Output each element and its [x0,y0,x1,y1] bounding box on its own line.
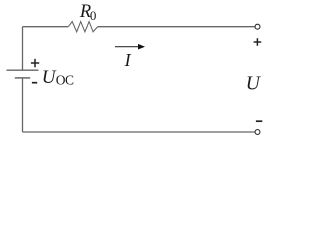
battery Uoc short plate [15,77,30,79]
terminal bottom right [255,130,260,135]
battery Uoc long plate [7,69,39,71]
plus battery [31,59,39,68]
svg-text:U: U [246,74,262,95]
svg-text:0: 0 [90,8,97,23]
plus right [254,38,262,46]
minus right [256,120,262,122]
wire left lower [22,78,24,132]
wire top right [98,26,255,28]
svg-text:U: U [42,67,57,88]
wire top left [23,26,69,28]
resistor R0 [68,22,97,32]
wire bottom [23,131,255,133]
current arrow [115,44,145,50]
wire left upper [22,27,24,70]
terminal top right [255,24,260,29]
svg-text:I: I [124,50,132,70]
svg-text:OC: OC [56,73,74,88]
minus battery [32,82,37,84]
